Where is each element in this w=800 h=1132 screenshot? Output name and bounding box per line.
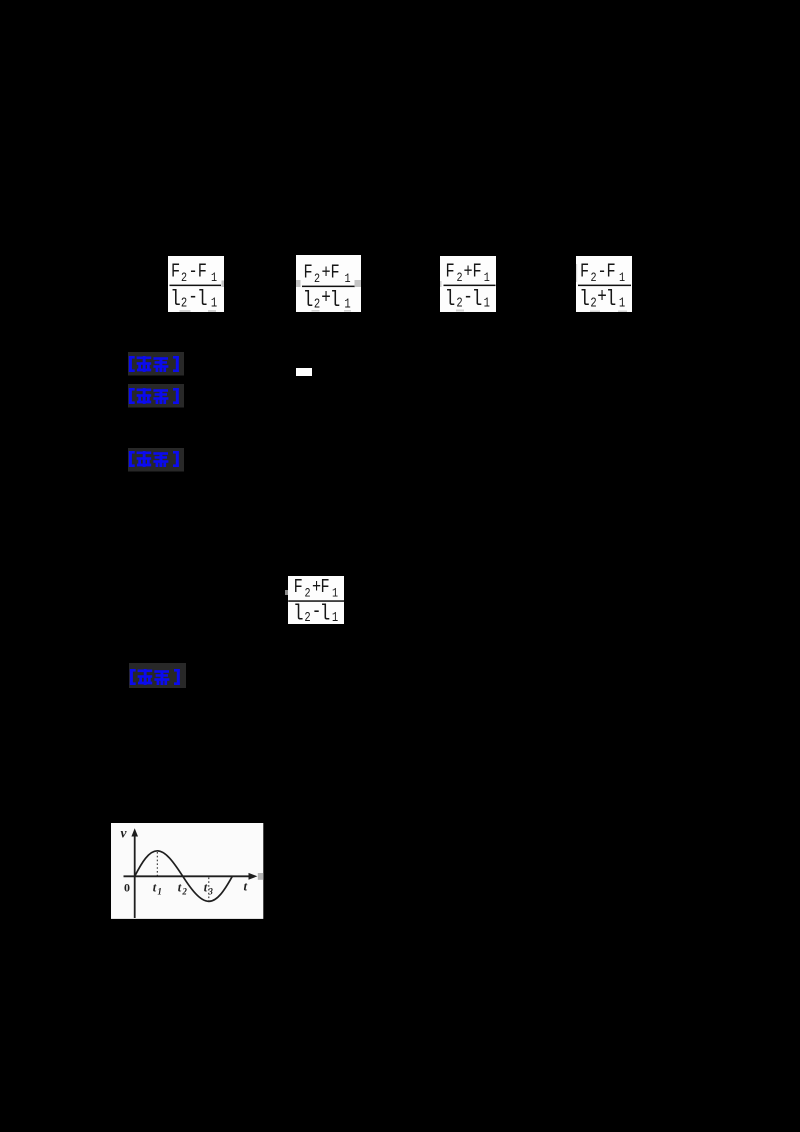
dotted t3 (208, 878, 210, 901)
svg-text:l: l (606, 287, 617, 312)
svg-text:l: l (579, 287, 590, 312)
svg-text:l: l (472, 287, 483, 312)
svg-text:F: F (445, 261, 454, 283)
svg-text:0: 0 (124, 881, 130, 895)
svg-text:1: 1 (158, 887, 162, 897)
svg-text:F: F (472, 261, 481, 283)
svg-text:l: l (293, 601, 304, 624)
svg-text:2: 2 (182, 887, 188, 897)
svg-text:2: 2 (590, 295, 596, 311)
link label kaodian: highlight box + blue text (128, 352, 184, 376)
dotted t1 (157, 852, 159, 875)
svg-text:1: 1 (332, 609, 338, 624)
svg-text:2: 2 (304, 586, 310, 600)
svg-text:l: l (330, 288, 341, 312)
svg-text:t: t (153, 881, 157, 895)
svg-text:2: 2 (314, 272, 320, 286)
svg-text:F: F (294, 576, 303, 598)
sine curve (135, 851, 233, 902)
svg-text:2: 2 (181, 295, 187, 311)
svg-text:+: + (463, 262, 472, 283)
svg-text:1: 1 (211, 295, 217, 311)
svg-text:2: 2 (314, 296, 320, 312)
formula image C: (F2+F1)/(l2-l1) white box (440, 256, 496, 312)
svg-text:F: F (171, 261, 180, 283)
svg-text:-: - (597, 262, 606, 283)
link label fenxi: highlight box + blue text (128, 384, 184, 408)
formula image E: (F2+F1)/(l2-l1) white box (288, 576, 344, 625)
svg-text:F: F (320, 576, 329, 598)
link label dianping: highlight box + blue text (129, 663, 186, 688)
svg-text:1: 1 (619, 271, 625, 285)
svg-text:l: l (445, 287, 456, 312)
formula image A: (F2-F1)/(l2-l1) white box (168, 256, 224, 312)
formula image D: (F2-F1)/(l2+l1) white box (576, 256, 632, 312)
svg-text:F: F (198, 261, 207, 283)
svg-text:v: v (121, 826, 128, 841)
svg-text:1: 1 (619, 295, 625, 311)
svg-text:F: F (330, 262, 339, 284)
link label jieda: highlight box + blue text (128, 448, 184, 472)
svg-text:2: 2 (456, 271, 462, 285)
v axis (134, 834, 136, 918)
svg-text:2: 2 (456, 295, 462, 311)
tiny equals mark left of formula E (285, 590, 288, 595)
svg-text:F: F (303, 262, 312, 284)
svg-text:3: 3 (208, 887, 214, 897)
svg-text:l: l (320, 601, 331, 624)
svg-text:1: 1 (344, 296, 350, 312)
svg-text:1: 1 (332, 586, 338, 600)
svg-text:F: F (606, 261, 615, 283)
svg-text:1: 1 (344, 272, 350, 286)
small white dash image (296, 368, 312, 376)
svg-text:t: t (244, 879, 248, 894)
svg-text:l: l (303, 288, 314, 312)
svg-text:2: 2 (181, 271, 187, 285)
svg-text:-: - (188, 262, 197, 283)
svg-text:t: t (178, 881, 182, 895)
formula image B: (F2+F1)/(l2+l1) white box (296, 255, 361, 312)
v-t sine graph image (white box) (111, 823, 263, 919)
svg-text:l: l (197, 287, 208, 312)
svg-text:+: + (321, 263, 330, 284)
t axis (124, 876, 252, 878)
svg-text:t: t (204, 881, 208, 895)
svg-text:1: 1 (211, 271, 217, 285)
svg-text:l: l (170, 287, 181, 312)
svg-text:2: 2 (304, 609, 310, 624)
svg-text:2: 2 (590, 271, 596, 285)
svg-text:1: 1 (484, 295, 490, 311)
svg-text:1: 1 (484, 271, 490, 285)
svg-text:F: F (580, 261, 589, 283)
